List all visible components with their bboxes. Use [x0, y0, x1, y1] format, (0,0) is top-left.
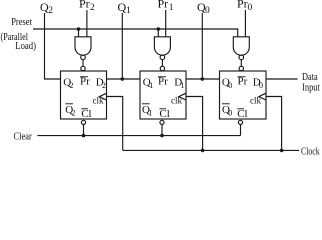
svg-text:2: 2 [102, 81, 106, 90]
svg-text:Cl: Cl [237, 108, 247, 120]
U1 preset bubble [160, 66, 164, 70]
flip-flop U2 box [61, 71, 107, 119]
svg-text:Load): Load) [15, 41, 36, 52]
svg-text:clk: clk [93, 96, 104, 106]
svg-text:1: 1 [148, 108, 152, 117]
svg-text:2: 2 [90, 3, 95, 13]
svg-text:Pr: Pr [79, 0, 90, 11]
svg-text:Pr: Pr [237, 0, 248, 11]
svg-text:0: 0 [248, 3, 253, 13]
wire D0 to Data Input [266, 78, 298, 80]
wire clear rail [37, 135, 240, 137]
U1 clk chevron [179, 93, 186, 100]
node junction clock U1 [201, 149, 205, 153]
wire Pr1 input [165, 10, 167, 37]
wire U0 clk [266, 97, 282, 151]
svg-text:1: 1 [149, 81, 153, 90]
svg-text:1: 1 [126, 6, 131, 16]
wire U1 clk [186, 97, 203, 151]
svg-text:2: 2 [70, 81, 74, 90]
wire U2 clear drop [83, 125, 85, 136]
svg-text:Pr: Pr [158, 0, 169, 11]
wire preset drop to G1 left input [157, 29, 159, 37]
wire U2 clk [107, 97, 123, 151]
NAND gate G2 (Pr2) [75, 37, 91, 55]
wire preset drop to G2 left input [78, 29, 80, 37]
wire Q1 to D2 [107, 78, 141, 80]
wire preset rail [33, 29, 238, 37]
U2 clear bubble [81, 120, 85, 124]
node junction clear U2 [82, 134, 86, 138]
svg-text:2: 2 [72, 108, 76, 117]
U1 clear bubble [160, 120, 164, 124]
node junction clock U0 [280, 149, 284, 153]
svg-text:Input: Input [302, 83, 320, 94]
node junction Q0/D1 [201, 77, 205, 81]
U0 clear bubble [238, 120, 242, 124]
svg-text:1: 1 [181, 81, 185, 90]
svg-text:Cl: Cl [81, 108, 91, 120]
NAND gate G1 (Pr1) [154, 37, 170, 55]
svg-text:Clear: Clear [14, 132, 33, 143]
wire Pr0 input [244, 10, 246, 37]
svg-text:0: 0 [228, 81, 232, 90]
svg-text:Clock: Clock [301, 147, 320, 157]
wire Pr2 input [86, 10, 88, 37]
NAND gate G0 (Pr0) [233, 37, 249, 55]
U2 clk chevron [99, 93, 106, 100]
svg-text:0: 0 [228, 108, 232, 117]
flip-flop U1 box [140, 71, 186, 119]
wire Q2 output to top label [45, 13, 61, 79]
U0 clk chevron [259, 93, 266, 100]
node junction Q1/D2 [121, 77, 125, 81]
node junction preset to G1 [157, 27, 161, 31]
svg-text:Cl: Cl [159, 108, 169, 120]
wire clock rail [123, 149, 299, 151]
wire Q0 vertical from label [201, 13, 203, 79]
flip-flop U0 box [220, 71, 267, 119]
wire Q0 to D1 [186, 78, 220, 80]
svg-text:Preset: Preset [11, 17, 32, 28]
svg-text:clk: clk [250, 96, 261, 106]
svg-text:0: 0 [259, 81, 263, 90]
U0 preset bubble [239, 66, 243, 70]
wire U1 clear drop [161, 125, 163, 136]
svg-text:clk: clk [171, 96, 182, 106]
wire U0 clear drop [240, 125, 242, 136]
svg-text:2: 2 [48, 6, 53, 16]
node junction clear U1 [160, 134, 164, 138]
svg-text:1: 1 [169, 3, 174, 13]
svg-text:0: 0 [205, 6, 210, 16]
node junction preset to G2 [77, 27, 81, 31]
wire Q1 vertical from label [121, 13, 123, 79]
U2 preset bubble [81, 66, 85, 70]
